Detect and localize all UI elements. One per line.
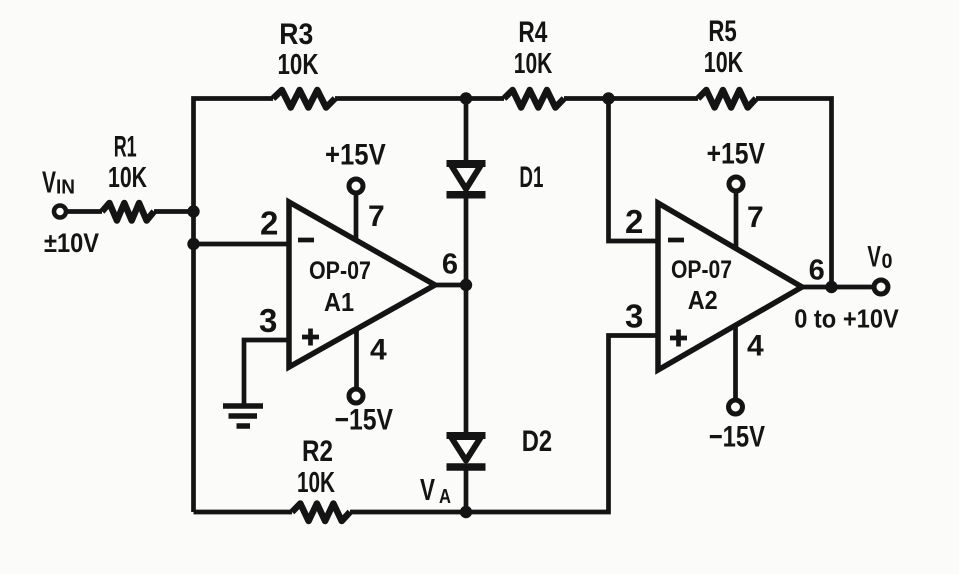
wire top rail right-mid segment	[564, 96, 698, 101]
wire top rail mid segment	[335, 96, 504, 101]
svg-text:10K: 10K	[514, 48, 553, 80]
A2 plus symbol	[670, 330, 687, 347]
ground	[223, 406, 263, 426]
terminal A1 -15V circle	[349, 389, 363, 403]
wire A1 pin2 input	[194, 242, 290, 247]
wire A1 pin3 input	[244, 340, 289, 404]
resistor R3	[273, 90, 335, 108]
wire A1 pin4 stub	[354, 329, 359, 387]
wire top rail right + R5 right leg down to output node	[756, 99, 832, 288]
svg-text:+15V: +15V	[707, 137, 765, 170]
wire diode column middle	[464, 198, 469, 433]
svg-text:D2: D2	[522, 425, 552, 458]
wire A2 output	[802, 285, 872, 290]
resistor R1	[102, 203, 154, 221]
resistor R5	[698, 90, 756, 108]
svg-text:3: 3	[259, 302, 277, 339]
svg-text:R1: R1	[114, 131, 137, 164]
wire top node to A2 pin2	[609, 99, 659, 242]
svg-text:IN: IN	[56, 177, 75, 199]
wire bottom rail left segment	[194, 510, 293, 515]
junction node R3/R4/D1	[460, 92, 472, 104]
wire top rail left + left column	[194, 99, 274, 513]
svg-text:R3: R3	[279, 18, 313, 51]
svg-text:0: 0	[882, 250, 893, 273]
terminal input VIN circle	[54, 206, 66, 218]
svg-text:2: 2	[625, 203, 643, 240]
svg-text:6: 6	[809, 254, 825, 286]
A1 minus symbol	[298, 238, 314, 243]
svg-text:0 to +10V: 0 to +10V	[794, 303, 899, 333]
svg-text:V: V	[867, 241, 881, 274]
svg-text:R5: R5	[708, 15, 736, 48]
wire R1 to node	[154, 209, 194, 214]
svg-text:A2: A2	[688, 285, 718, 315]
svg-text:V: V	[42, 164, 56, 199]
wire diode column lower	[464, 470, 469, 512]
svg-text:V: V	[420, 472, 435, 507]
wire A2 pin7 stub	[734, 193, 739, 248]
svg-text:OP-07: OP-07	[671, 256, 732, 284]
svg-text:10K: 10K	[704, 47, 743, 79]
terminal A2 +15V circle	[729, 177, 743, 191]
svg-text:−15V: −15V	[335, 403, 394, 436]
wire A1 pin7 stub	[354, 195, 359, 240]
junction node R4/R5/A2pin2	[602, 92, 614, 104]
svg-text:6: 6	[442, 249, 458, 281]
svg-text:OP-07: OP-07	[309, 257, 371, 285]
diode D2	[447, 436, 486, 468]
op-amp U2 triangle A2	[658, 203, 802, 370]
svg-text:7: 7	[747, 201, 764, 234]
svg-text:+15V: +15V	[325, 139, 386, 172]
resistor R4	[504, 90, 564, 108]
svg-text:A1: A1	[324, 287, 354, 317]
terminal output VO circle	[874, 280, 888, 294]
junction node VA	[460, 506, 472, 518]
wire bottom rail right + rise to A2 pin3	[350, 336, 658, 513]
svg-text:A: A	[439, 486, 451, 508]
resistor R2	[292, 504, 350, 522]
svg-text:3: 3	[625, 297, 643, 334]
junction node A1 output	[460, 279, 472, 291]
svg-text:4: 4	[747, 330, 764, 363]
svg-text:7: 7	[368, 200, 385, 233]
wire input to R1	[66, 209, 102, 214]
svg-text:±10V: ±10V	[44, 228, 99, 258]
svg-text:D1: D1	[519, 161, 543, 194]
svg-text:−15V: −15V	[709, 421, 765, 454]
diode D1	[447, 164, 486, 195]
svg-text:10K: 10K	[108, 162, 147, 194]
svg-text:R2: R2	[302, 435, 333, 468]
junction node A1 pin2	[187, 238, 199, 250]
A1 plus symbol	[302, 329, 319, 346]
junction node output	[825, 281, 837, 293]
op-amp U1 triangle A1	[289, 202, 435, 367]
svg-text:10K: 10K	[297, 467, 335, 499]
wire diode column upper	[464, 99, 469, 162]
terminal A2 -15V circle	[729, 400, 743, 414]
terminal A1 +15V circle	[349, 179, 363, 193]
A2 minus symbol	[668, 238, 684, 243]
svg-text:4: 4	[370, 333, 387, 366]
svg-text:R4: R4	[518, 16, 547, 49]
svg-text:10K: 10K	[278, 49, 319, 81]
svg-text:2: 2	[260, 205, 278, 242]
junction node input/R3	[187, 205, 199, 217]
wire A1 output	[435, 283, 466, 288]
wire A2 pin4 stub	[733, 325, 738, 398]
